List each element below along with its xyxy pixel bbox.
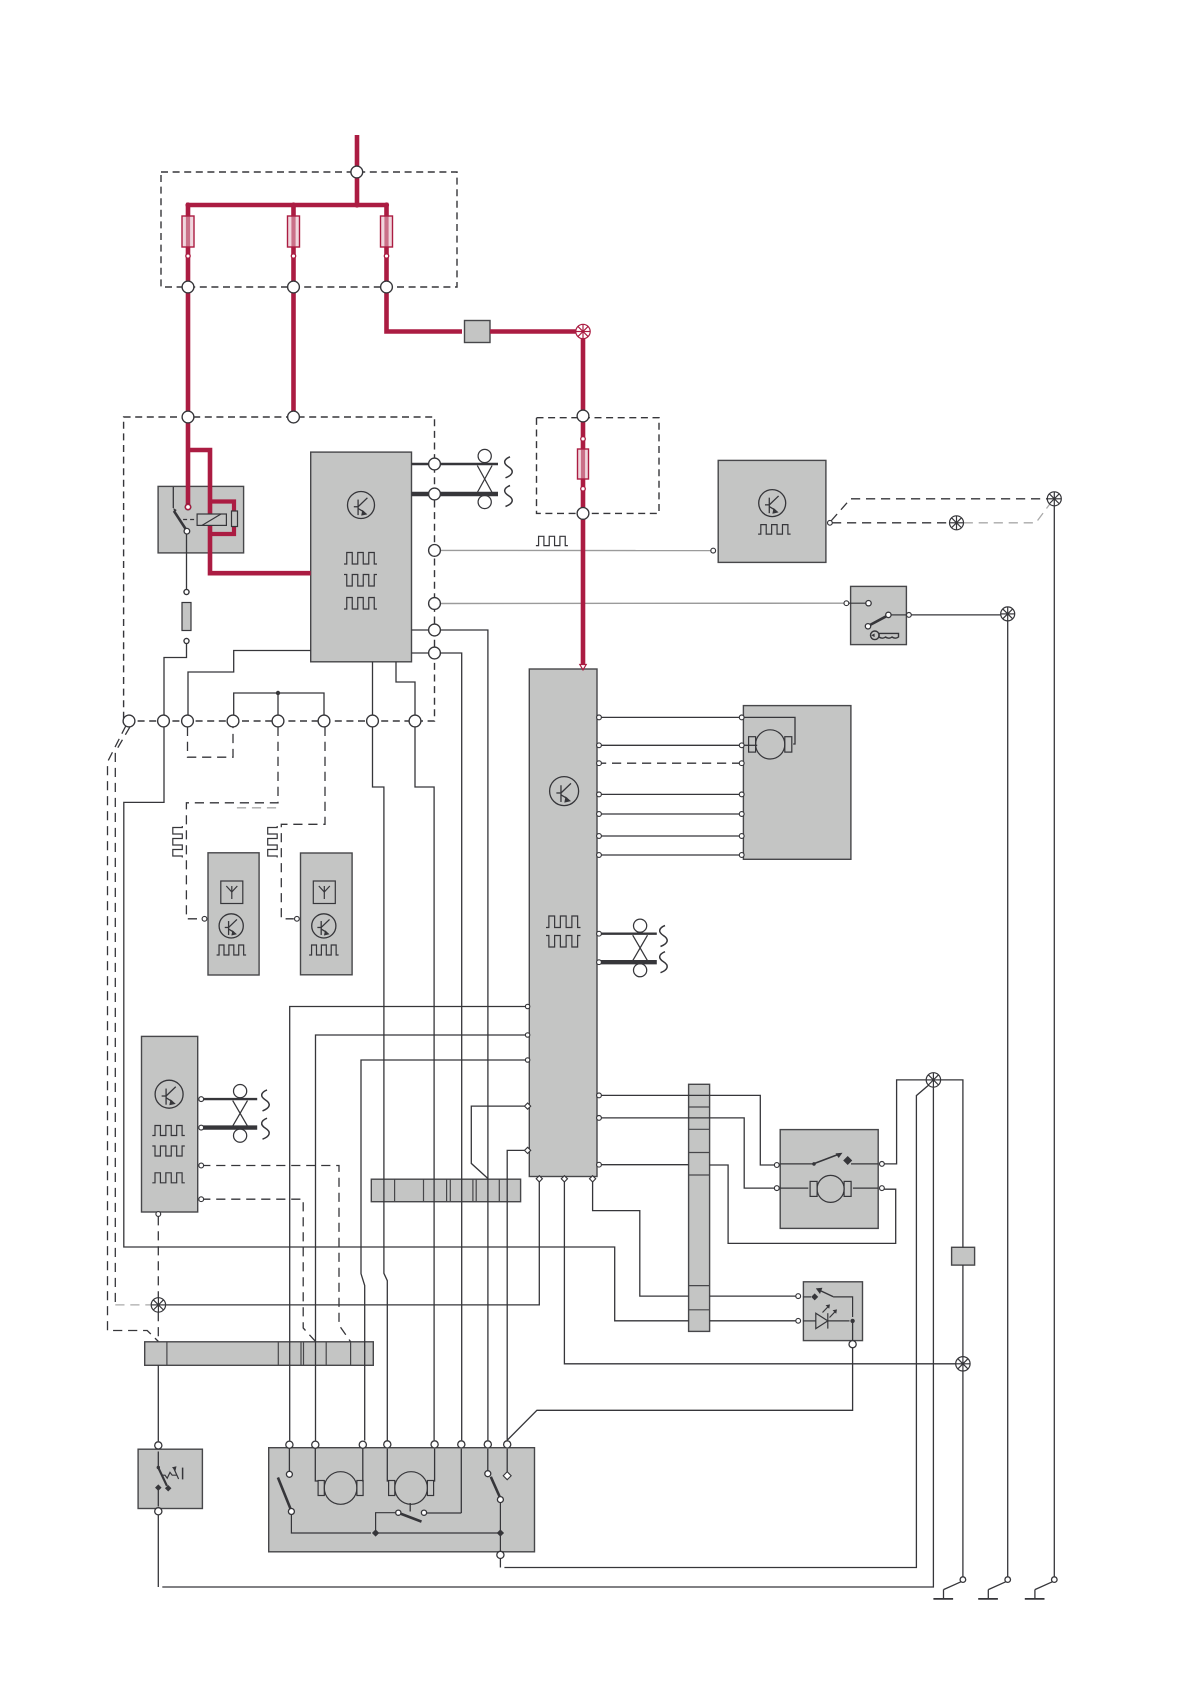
node — [429, 488, 441, 500]
wire lock pin5 — [434, 1449, 435, 1481]
wire dashed U4 pin3 — [201, 1166, 350, 1342]
relay switch — [173, 508, 189, 534]
twisted pair U3 — [633, 919, 648, 977]
wire fuse bus — [186, 203, 389, 208]
wire U1 to CEM pin — [188, 651, 311, 716]
wire — [440, 653, 461, 1440]
M3 switch L — [278, 1471, 371, 1533]
M2 internal wires — [780, 1187, 878, 1189]
wire — [186, 291, 191, 507]
splice S2 — [956, 1357, 970, 1371]
strip J3 divider — [166, 1342, 168, 1366]
wire U3-M1 — [597, 793, 742, 795]
relay pin — [185, 504, 191, 510]
key symbol S1 — [871, 631, 899, 640]
wire U1 pin to lock unit — [412, 629, 429, 631]
pin — [597, 1116, 602, 1121]
node — [409, 715, 421, 727]
ground G1 — [933, 1577, 965, 1599]
connector strip J2 — [689, 1084, 710, 1331]
hood switch S2 — [138, 1449, 202, 1508]
wire M2 to splice — [884, 1080, 926, 1164]
wire splice to block — [941, 1080, 963, 1247]
junction — [186, 254, 190, 258]
strip J2 divider — [689, 1285, 710, 1287]
squiggle — [262, 1118, 270, 1139]
control module U1 — [311, 452, 412, 662]
wire relay branch — [188, 450, 311, 573]
wire — [387, 291, 463, 332]
wire U3-M1 — [597, 854, 742, 856]
splice S5 — [1047, 492, 1061, 506]
pin — [199, 1163, 204, 1168]
pin — [774, 1163, 779, 1168]
wire U3 serial thick — [597, 960, 657, 964]
node — [182, 281, 194, 293]
wire dashed U4 bottom — [157, 1216, 159, 1298]
node — [497, 1551, 504, 1558]
junction — [291, 254, 295, 258]
node — [182, 715, 194, 727]
motor M2 — [810, 1175, 851, 1202]
pin — [156, 1212, 161, 1217]
pulse symbol A2 — [309, 945, 338, 955]
strip J3 divider — [303, 1342, 305, 1366]
wire U4 ant thick — [201, 1125, 257, 1129]
pin — [184, 590, 189, 595]
junction — [384, 254, 388, 258]
squiggle — [262, 1090, 270, 1111]
strip J1 divider — [449, 1179, 451, 1202]
pin — [597, 715, 602, 720]
wire lock pin3 — [362, 1449, 364, 1481]
wire M1 internal loop — [743, 717, 795, 744]
relay contact feed — [172, 487, 174, 508]
strip J1 divider — [394, 1179, 396, 1202]
pulse symbol U2 — [758, 525, 791, 535]
wire relay coil loop — [210, 502, 234, 535]
transistor U2 — [759, 490, 786, 517]
pin — [739, 743, 744, 748]
pin — [597, 1162, 602, 1167]
motor M3b — [389, 1472, 434, 1505]
pin red — [185, 504, 190, 509]
strip J2 divider — [689, 1174, 710, 1176]
node — [182, 411, 194, 423]
wire lock pin6 — [460, 1449, 462, 1513]
wire gray dashed to splice — [115, 1304, 151, 1306]
node — [577, 508, 589, 520]
wire — [291, 247, 296, 288]
wire battery feed 30 — [355, 135, 360, 205]
pin — [524, 1103, 530, 1109]
lock indicator L1 — [803, 1282, 862, 1341]
relay K1 — [158, 486, 244, 553]
fuse F3 feed — [384, 205, 389, 217]
receiver module U2 — [718, 460, 826, 562]
wire splice to ground G2 — [1007, 621, 1009, 1577]
junction — [291, 202, 296, 207]
wire U1 K-line — [412, 463, 499, 465]
node — [504, 1441, 511, 1448]
L1 junction — [850, 1319, 854, 1323]
strip J2 divider — [689, 1309, 710, 1311]
fuse F2 — [291, 216, 295, 247]
wire dashed ext left a — [108, 726, 159, 1342]
node — [286, 1441, 293, 1448]
ground G3 — [1025, 1577, 1057, 1599]
wire U1 bottom 2 — [396, 662, 415, 715]
connector block — [952, 1247, 975, 1265]
wire U3-M1 dashed — [597, 762, 743, 764]
wire CEM bridge — [234, 693, 324, 715]
node — [158, 715, 170, 727]
node — [288, 281, 300, 293]
pin — [524, 1147, 530, 1153]
pin — [580, 665, 586, 670]
junction — [276, 691, 280, 695]
wire L1 internal — [852, 1321, 854, 1341]
pin red bot — [581, 487, 586, 492]
pin — [796, 1294, 801, 1299]
transistor U1 — [348, 492, 375, 519]
lock unit M3 — [269, 1448, 535, 1552]
squiggle — [660, 926, 668, 947]
M3 switch R — [485, 1471, 504, 1551]
wire dashed U2 out A — [831, 499, 1047, 521]
transistor A2 — [312, 914, 336, 938]
node — [123, 715, 135, 727]
wire gray dashed pair — [237, 807, 281, 809]
pin — [739, 761, 744, 766]
pin — [597, 853, 602, 858]
wire dashed to A1 — [186, 727, 278, 919]
wire M1 internal — [743, 744, 757, 746]
node — [318, 715, 330, 727]
strip J2 divider — [689, 1128, 710, 1130]
pin — [597, 960, 602, 965]
coil symbol A2 — [268, 826, 278, 858]
strip J1 divider — [423, 1179, 425, 1202]
ground G2 — [978, 1577, 1010, 1599]
wire splice branch — [504, 1084, 930, 1568]
wire M3 common — [376, 1532, 501, 1534]
wire strip J2 to L1 b — [710, 1320, 796, 1322]
wire U3 pin to lock unit b — [316, 1035, 530, 1441]
pin — [597, 761, 602, 766]
node — [155, 1508, 162, 1515]
connector strip J1 — [371, 1179, 520, 1202]
wire ignition input — [849, 602, 866, 604]
keyless module U4 — [142, 1036, 198, 1212]
wire — [581, 339, 586, 416]
wire U3 pin to lock unit c — [361, 1060, 529, 1441]
antenna module A2 — [301, 853, 353, 975]
wire — [440, 630, 488, 1440]
M3 aux pin — [503, 1472, 511, 1480]
wire dashed — [157, 1312, 159, 1342]
wire — [186, 247, 191, 288]
wire dashed U2 out B — [832, 522, 949, 524]
pin — [184, 639, 189, 644]
pulse symbol U3 a — [546, 916, 581, 928]
antenna A1 glyph — [221, 881, 243, 904]
strip J1 divider — [498, 1179, 500, 1202]
pin — [711, 548, 716, 553]
pin red top — [581, 437, 586, 442]
node — [431, 1441, 438, 1448]
pin — [589, 1176, 595, 1182]
transistor U4 — [155, 1080, 183, 1108]
wire U3-M1 — [597, 835, 742, 837]
pulse symbol U1 a — [344, 553, 377, 565]
pin — [739, 715, 744, 720]
wire block down — [962, 1265, 964, 1357]
pulse symbol U4 b — [152, 1146, 185, 1156]
node — [312, 1441, 319, 1448]
wire — [581, 519, 586, 665]
wire — [164, 644, 187, 716]
strip J3 divider — [325, 1342, 327, 1366]
wire U3-M1 — [597, 744, 742, 746]
node — [359, 1441, 366, 1448]
wire — [581, 420, 586, 450]
pin — [774, 1186, 779, 1191]
M3 link stub — [409, 1503, 411, 1512]
wire U3 to M2 pin1 — [597, 1095, 775, 1165]
pin — [880, 1186, 885, 1191]
node — [381, 281, 393, 293]
wire — [384, 247, 389, 288]
junction — [384, 202, 389, 207]
wire U3 pin to strip J1 — [471, 1106, 529, 1178]
wire bus 373 to lock unit — [373, 727, 388, 1441]
junction — [497, 1529, 504, 1536]
pin — [844, 601, 849, 606]
M2 switch — [780, 1153, 878, 1166]
strip J1 divider — [472, 1179, 474, 1202]
pin — [739, 853, 744, 858]
node — [367, 715, 379, 727]
wire gray U1 to U2 — [440, 549, 711, 551]
pin — [796, 1318, 801, 1323]
junction — [581, 437, 586, 442]
pin — [525, 1058, 529, 1062]
wire U3 bottom pin3 — [593, 1177, 689, 1297]
wire — [581, 479, 586, 513]
wire U1 K-line 2 — [412, 492, 499, 496]
fuse F2 feed — [291, 205, 296, 217]
wire — [499, 1559, 501, 1568]
wire lock pin8 — [506, 1449, 508, 1473]
wire U1 bottom 1 — [372, 662, 374, 715]
wire U3-M1 — [597, 813, 742, 815]
pin — [597, 743, 602, 748]
pin — [739, 812, 744, 817]
fuse F3 — [384, 216, 388, 247]
node — [384, 1441, 391, 1448]
wire gray U1 to S1 — [440, 602, 844, 604]
S2 switch — [155, 1452, 183, 1507]
L1 switch — [803, 1288, 853, 1317]
pin — [536, 1176, 542, 1182]
fuse F4 — [581, 449, 585, 479]
wire U3 pin to lock unit a — [290, 1007, 530, 1441]
wire U3 to M2 pin2 — [597, 1118, 775, 1188]
twisted pair U1 — [477, 449, 492, 508]
motor M1 — [749, 730, 792, 759]
wire lock unit out — [288, 1449, 290, 1471]
pulse symbol U1 c — [344, 598, 377, 610]
ignition switch S1 — [851, 586, 907, 644]
wire U3 serial thin — [597, 933, 657, 935]
fuse F5 — [182, 589, 191, 643]
junction — [354, 202, 359, 207]
relay resistor — [232, 511, 238, 527]
pin — [199, 1125, 204, 1130]
pin — [597, 812, 602, 817]
strip J2 divider — [689, 1152, 710, 1154]
fuse F1 feed — [186, 205, 191, 217]
wire ignition to splice — [911, 614, 1001, 616]
relay coil — [197, 514, 226, 525]
wire strip J2 to M2 loop — [710, 1165, 896, 1243]
wire ground bus left — [124, 727, 689, 1321]
wire bus 415 to lock unit — [415, 727, 434, 1440]
pulse symbol U1 b — [344, 575, 377, 587]
relay link dashed — [183, 519, 197, 521]
pin — [295, 916, 300, 921]
wire dashed to A2 — [281, 727, 325, 919]
node — [429, 458, 441, 470]
pin — [561, 1176, 567, 1182]
connector block — [465, 321, 491, 343]
squiggle — [660, 952, 668, 973]
antenna module A1 — [208, 853, 259, 975]
wire strip J2 to L1 a — [710, 1295, 796, 1297]
pin — [199, 1097, 204, 1102]
strip J3 divider — [300, 1342, 302, 1366]
wire relay to fuse — [186, 532, 188, 592]
splice S4 — [1001, 607, 1015, 621]
motor M3a — [318, 1472, 363, 1505]
node — [577, 410, 589, 422]
pin — [907, 613, 912, 618]
central module U3 — [529, 669, 597, 1177]
node — [155, 1442, 162, 1449]
pin — [880, 1162, 885, 1167]
wire lock pin4 — [387, 1449, 388, 1481]
wire L1 to lock unit — [507, 1348, 852, 1440]
fuse F4 enclosure — [537, 418, 660, 514]
junction — [185, 202, 190, 207]
pin — [597, 792, 602, 797]
CEM enclosure — [124, 417, 435, 721]
fuse box enclosure — [161, 172, 457, 287]
splice C red — [576, 324, 590, 338]
pulse symbol wire — [536, 536, 568, 545]
node — [429, 624, 441, 636]
wire strip J3 to S2 — [157, 1365, 159, 1441]
pin — [828, 520, 833, 525]
node — [429, 598, 441, 610]
node — [484, 1441, 491, 1448]
junction — [372, 1529, 379, 1536]
pulse symbol U3 b — [546, 936, 581, 948]
wire dashed ext left b — [115, 727, 130, 1305]
wire dashed bracket — [188, 727, 234, 757]
pin — [525, 1004, 529, 1008]
wire U3-M1 — [597, 716, 742, 718]
pulse symbol A1 — [217, 945, 247, 955]
pulse symbol U4 a — [152, 1126, 185, 1136]
transistor A1 — [219, 914, 243, 938]
motor assembly M1 — [743, 706, 851, 860]
node — [458, 1441, 465, 1448]
wire U3 bottom pin2 — [564, 1177, 955, 1364]
L1 LED — [803, 1304, 850, 1328]
splice S3 — [151, 1298, 165, 1312]
wire bridge tap — [277, 693, 279, 715]
fuse F1 — [186, 216, 190, 247]
wire — [157, 1515, 159, 1587]
node — [272, 715, 284, 727]
strip J3 divider — [350, 1342, 352, 1366]
wire to ground G1 — [962, 1371, 964, 1577]
wire gray dashed U2 out — [964, 504, 1050, 523]
strip J2 divider — [689, 1106, 710, 1108]
pin — [597, 834, 602, 839]
splice S1 — [926, 1073, 940, 1087]
connector strip J3 — [145, 1342, 374, 1366]
motor assembly M2 — [780, 1130, 878, 1229]
node — [351, 166, 363, 178]
wire U3 bottom pin1 — [166, 1177, 540, 1305]
coil symbol A1 — [173, 826, 183, 858]
strip J1 divider — [446, 1179, 448, 1202]
antenna A2 glyph — [313, 881, 335, 904]
pin — [199, 1197, 204, 1202]
squiggle — [505, 486, 513, 507]
strip J3 divider — [277, 1342, 279, 1366]
wire lock pin2 — [315, 1449, 318, 1481]
wire lock pin7 — [487, 1449, 489, 1471]
ignition switch contacts — [865, 601, 906, 630]
transistor U3 — [550, 777, 579, 806]
wire splice to ground G3 — [1053, 506, 1055, 1577]
twisted pair U4 — [233, 1085, 248, 1143]
junction — [581, 486, 586, 491]
node — [429, 545, 441, 557]
wire dashed U4 pin4 — [201, 1199, 316, 1342]
pin — [202, 916, 207, 921]
node — [429, 647, 441, 659]
squiggle — [505, 457, 513, 478]
node — [849, 1341, 856, 1348]
pin — [597, 931, 602, 936]
splice S6 — [950, 516, 964, 530]
pin — [739, 834, 744, 839]
wire U4 ant thin — [201, 1098, 257, 1100]
pin — [597, 1093, 602, 1098]
wire splice down — [162, 1087, 933, 1587]
node — [288, 411, 300, 423]
strip J1 divider — [475, 1179, 477, 1202]
wire U1 pin to lock unit 2 — [412, 652, 429, 654]
node — [227, 715, 239, 727]
pin — [525, 1033, 529, 1037]
wire U3 pin to lock unit d — [507, 1150, 529, 1440]
